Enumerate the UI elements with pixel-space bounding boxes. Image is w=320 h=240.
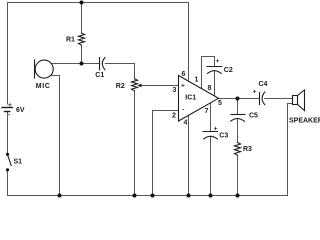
svg-text:7: 7 [205,108,209,115]
op-amp U1 triangle [179,76,219,122]
svg-text:6: 6 [182,71,186,78]
wire node to C5 [237,99,239,115]
wire pin 2 drop [153,111,179,196]
wire pin 4 drop [188,116,190,196]
bus dot pin4 [187,194,191,198]
wire R3 to bus [237,155,239,195]
svg-text:-: - [8,112,10,119]
switch S1 top contact [6,153,9,156]
speaker body [293,96,298,105]
wire top rail [8,2,189,4]
resistor R2 (pot) [132,79,138,91]
wire C1 to R2 top [105,64,134,79]
svg-text:3: 3 [173,87,177,94]
svg-text:8: 8 [208,85,212,92]
capacitor C3 [203,131,218,133]
wire pin 1 to C2 [202,57,215,89]
node output dot [236,97,240,101]
svg-text:6V: 6V [16,107,25,114]
svg-text:-: - [182,107,184,114]
wire C3 to bus [210,137,212,196]
wire pin 7 to C3 [210,103,212,132]
svg-text:R3: R3 [243,146,252,153]
svg-text:+: + [181,83,185,90]
svg-text:+: + [214,125,218,132]
svg-text:IC1: IC1 [185,95,196,102]
svg-text:C5: C5 [249,113,258,120]
bus dot mic [58,194,62,198]
svg-text:R1: R1 [66,37,75,44]
svg-text:C2: C2 [224,67,233,74]
wire R2 bottom drop [134,91,136,196]
wire switch to bottom bus [7,171,9,196]
svg-text:+: + [8,102,12,109]
capacitor C1 [99,58,101,70]
svg-text:R2: R2 [116,83,125,90]
svg-text:5: 5 [218,100,222,107]
svg-text:+: + [253,89,257,96]
wire speaker riser [288,104,293,196]
wire C4 to speaker [265,98,293,100]
wire left rail to battery [7,3,9,105]
svg-text:+: + [216,58,220,65]
wire wiper to pin 3 [140,85,179,87]
wire mic bottom drop [51,76,60,196]
svg-text:C3: C3 [219,133,228,140]
wire bottom bus [8,195,288,197]
switch S1 bottom contact [6,168,9,171]
svg-text:S1: S1 [14,159,23,166]
bus dot C3 [209,194,213,198]
bus dot pin2 [151,194,155,198]
battery B1 6V [2,107,13,109]
resistor R1 [79,33,85,45]
svg-text:1: 1 [195,77,199,84]
svg-text:SPEAKER: SPEAKER [289,118,320,125]
wire battery to switch [7,112,9,153]
switch S1 lever [8,156,11,166]
wire R1 top [81,3,83,34]
wire R1 bottom [81,45,83,63]
node A dot (R1 top rail) [80,1,84,5]
svg-text:MIC: MIC [36,83,51,90]
wire C5 to R3 [237,119,239,143]
bus dot R2 [133,194,137,198]
wire pin 6 [188,3,190,81]
capacitor C4 [259,92,261,104]
capacitor C5 [231,114,245,116]
bus dot R3 [236,194,240,198]
wire mic to node A [51,63,99,65]
node B dot (mic/R1/C1) [80,62,84,66]
wiper arrowhead R2 [137,84,141,87]
capacitor C2 [207,66,222,68]
svg-text:4: 4 [184,120,188,127]
wire output pin 5 [219,98,260,100]
mic body [35,60,53,78]
svg-text:C1: C1 [95,72,104,79]
resistor R3 [235,143,241,156]
svg-text:C4: C4 [259,81,268,88]
wire C2 to pin 8 [214,71,216,96]
svg-text:2: 2 [172,113,176,120]
